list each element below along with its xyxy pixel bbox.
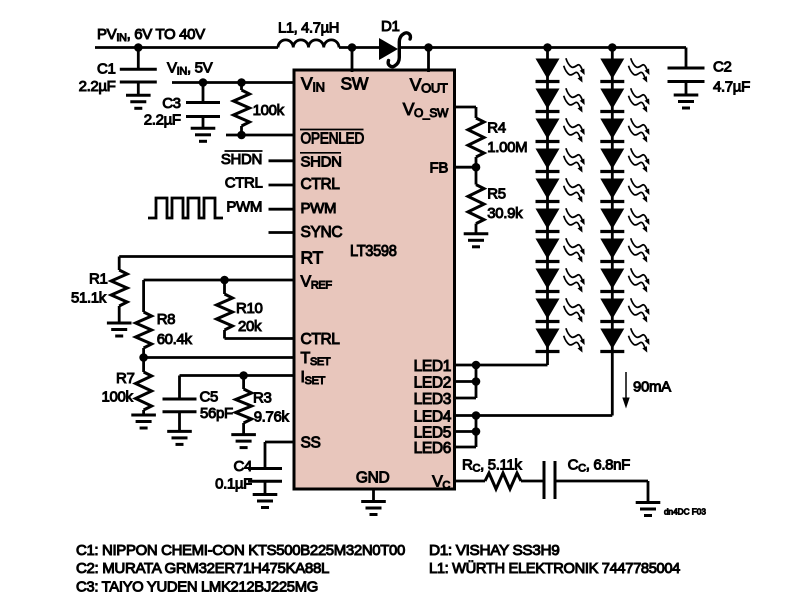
svg-text:9.76k: 9.76k <box>254 409 290 426</box>
svg-text:C1: NIPPON CHEMI-CON KTS500B22: C1: NIPPON CHEMI-CON KTS500B225M32N0T00 <box>76 542 405 559</box>
svg-text:C5: C5 <box>200 389 218 406</box>
svg-text:GND: GND <box>356 470 390 487</box>
svg-text:R3: R3 <box>253 390 271 407</box>
svg-text:RC, 5.11k: RC, 5.11k <box>462 457 522 475</box>
svg-text:D1: VISHAY SS3H9: D1: VISHAY SS3H9 <box>429 542 559 559</box>
svg-text:LED5: LED5 <box>414 425 451 442</box>
svg-text:56pF: 56pF <box>200 405 233 422</box>
svg-text:CTRL: CTRL <box>225 175 263 192</box>
svg-text:51.1k: 51.1k <box>71 290 107 307</box>
svg-text:FB: FB <box>430 160 449 177</box>
svg-text:C2: MURATA GRM32ER71H475KA88L: C2: MURATA GRM32ER71H475KA88L <box>76 560 329 577</box>
svg-text:20k: 20k <box>238 318 262 335</box>
svg-text:CTRL: CTRL <box>301 331 341 348</box>
svg-text:LED6: LED6 <box>414 440 451 457</box>
svg-text:RT: RT <box>301 248 324 268</box>
svg-text:2.2µF: 2.2µF <box>144 112 181 129</box>
svg-text:60.4k: 60.4k <box>157 331 193 348</box>
svg-text:R7: R7 <box>116 370 134 387</box>
svg-text:100k: 100k <box>253 102 285 119</box>
svg-text:90mA: 90mA <box>633 379 671 396</box>
svg-text:30.9k: 30.9k <box>487 205 523 222</box>
svg-text:C1: C1 <box>97 61 115 78</box>
svg-text:LED4: LED4 <box>414 409 452 426</box>
svg-text:4.7µF: 4.7µF <box>713 79 750 96</box>
svg-text:D1: D1 <box>381 18 399 35</box>
svg-text:C3: TAIYO YUDEN LMK212BJ225MG: C3: TAIYO YUDEN LMK212BJ225MG <box>76 578 318 595</box>
svg-text:R5: R5 <box>487 186 505 203</box>
svg-text:PWM: PWM <box>226 199 262 216</box>
svg-text:R8: R8 <box>157 311 175 328</box>
svg-text:PVIN, 6V TO 40V: PVIN, 6V TO 40V <box>97 26 205 44</box>
svg-text:LED3: LED3 <box>414 391 451 408</box>
svg-text:LED1: LED1 <box>414 358 451 375</box>
svg-text:SHDN: SHDN <box>221 151 262 168</box>
svg-text:SYNC: SYNC <box>301 224 343 241</box>
svg-text:LED2: LED2 <box>414 375 451 392</box>
svg-text:C3: C3 <box>162 95 180 112</box>
svg-text:L1: WÜRTH ELEKTRONIK 744778500: L1: WÜRTH ELEKTRONIK 7447785004 <box>429 559 680 577</box>
svg-text:dn4DC F03: dn4DC F03 <box>664 508 706 517</box>
svg-text:C2: C2 <box>713 59 731 76</box>
svg-text:CC, 6.8nF: CC, 6.8nF <box>568 457 631 475</box>
svg-text:C4: C4 <box>234 458 252 475</box>
svg-text:VIN, 5V: VIN, 5V <box>167 59 213 77</box>
svg-text:OPENLED: OPENLED <box>301 130 365 147</box>
svg-text:1.00M: 1.00M <box>487 139 527 156</box>
svg-text:SS: SS <box>301 435 321 452</box>
svg-text:CTRL: CTRL <box>301 176 341 193</box>
svg-text:R10: R10 <box>236 300 262 317</box>
svg-text:R1: R1 <box>89 271 107 288</box>
svg-text:2.2µF: 2.2µF <box>79 78 116 95</box>
svg-text:R4: R4 <box>487 120 505 137</box>
svg-text:SHDN: SHDN <box>301 154 342 171</box>
svg-text:LT3598: LT3598 <box>350 243 397 260</box>
svg-text:100k: 100k <box>102 389 134 406</box>
svg-text:0.1µF: 0.1µF <box>215 476 252 493</box>
svg-text:L1, 4.7µH: L1, 4.7µH <box>278 19 339 36</box>
svg-text:SW: SW <box>341 74 369 94</box>
svg-text:PWM: PWM <box>301 200 337 217</box>
